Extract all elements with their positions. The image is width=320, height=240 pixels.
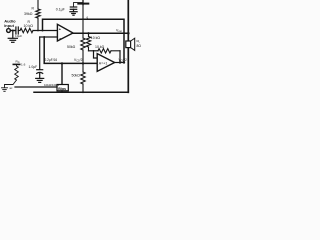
label R5: [91, 36, 101, 40]
supply terminal +VCC: [78, 0, 88, 5]
net label VCC/2: [74, 58, 83, 63]
speaker LS1: [126, 38, 135, 50]
wire U1B output: [115, 61, 126, 63]
capacitor C3 1.0uF: [37, 70, 43, 74]
wire bias input: [15, 86, 57, 88]
op-amp U1A: [57, 24, 73, 41]
value label C3: [29, 65, 38, 69]
label R3: [67, 45, 76, 49]
svg-text:10µF: 10µF: [15, 34, 22, 38]
svg-text:10 kΩ: 10 kΩ: [91, 36, 101, 40]
ground (input jack): [8, 31, 17, 43]
resistor R3 50k (divider top): [81, 5, 85, 65]
svg-text:VCC/2: VCC/2: [119, 58, 127, 63]
svg-text:RL: RL: [137, 39, 141, 44]
wire feedback node: [44, 37, 97, 63]
svg-text:Input: Input: [4, 23, 14, 28]
wire inverting input U1A: [40, 36, 57, 38]
label R6: [72, 73, 81, 77]
value label C1: [15, 34, 22, 38]
ground (bypass): [70, 9, 77, 15]
wire RG to ground: [5, 80, 17, 88]
wire ground rail: [34, 91, 128, 93]
value label C2: [56, 7, 65, 11]
resistor RG: [13, 64, 19, 80]
svg-text:2.2µF/16: 2.2µF/16: [45, 58, 58, 62]
svg-text:1.6: 1.6: [21, 62, 26, 66]
ground (RG): [2, 87, 13, 92]
value label 2.2uF: [45, 58, 58, 62]
svg-text:0.1µF: 0.1µF: [56, 7, 65, 11]
net label VCC/2 output: [119, 58, 127, 63]
svg-text:50kΩ: 50kΩ: [72, 73, 81, 77]
capacitor C1: [16, 27, 18, 34]
label speaker 8 ohm: [137, 39, 142, 48]
svg-text:1.0µF: 1.0µF: [29, 65, 38, 69]
resistor R1 10k (input series): [18, 28, 33, 32]
svg-text:Vout: Vout: [116, 28, 122, 33]
svg-text:39kΩ: 39kΩ: [24, 12, 33, 16]
wire R5 to U1B: [89, 50, 99, 58]
label Audio Input: [4, 18, 16, 28]
resistor R4 10k: [98, 49, 120, 53]
svg-text:VCC/2: VCC/2: [74, 58, 83, 63]
svg-text:A=+1: A=+1: [99, 62, 108, 66]
svg-text:10 kΩ: 10 kΩ: [95, 45, 105, 49]
wire bias rail VCC/2: [43, 19, 125, 62]
svg-text:8Ω: 8Ω: [137, 44, 142, 48]
net label Vout: [116, 28, 122, 33]
wire U1A output Vout: [73, 32, 129, 34]
wire R4 to output U1B: [119, 51, 121, 64]
svg-text:10 kΩ: 10 kΩ: [24, 24, 34, 28]
wire to C3: [39, 37, 41, 69]
label RG: [16, 60, 26, 67]
svg-text:ac: ac: [10, 87, 13, 90]
svg-text:10kΩ/10kΩ: 10kΩ/10kΩ: [44, 83, 60, 87]
resistor R6 50k (divider bottom): [81, 63, 85, 92]
resistor R5 10k (feedback): [86, 32, 90, 51]
label divider values: [44, 83, 60, 87]
label R4: [95, 45, 105, 49]
wire bias tap: [61, 62, 63, 84]
wire input node: [33, 30, 57, 32]
bias block: [57, 85, 68, 93]
node pin 6: [82, 15, 88, 20]
label R2 39k: [24, 7, 35, 16]
svg-text:R: R: [32, 7, 35, 11]
label R1 10k: [24, 20, 34, 28]
wire bypass link: [74, 3, 84, 7]
capacitor C2 bypass: [70, 7, 76, 9]
op-amp U1B buffer: [97, 54, 114, 72]
input jack J1: [7, 29, 16, 33]
ground (C3): [36, 73, 44, 82]
svg-text:RG: RG: [16, 60, 20, 65]
svg-text:50kΩ: 50kΩ: [67, 45, 76, 49]
resistor R2 39k (bias): [36, 0, 40, 31]
svg-text:–: –: [59, 36, 61, 40]
wire speaker branch: [127, 0, 130, 92]
